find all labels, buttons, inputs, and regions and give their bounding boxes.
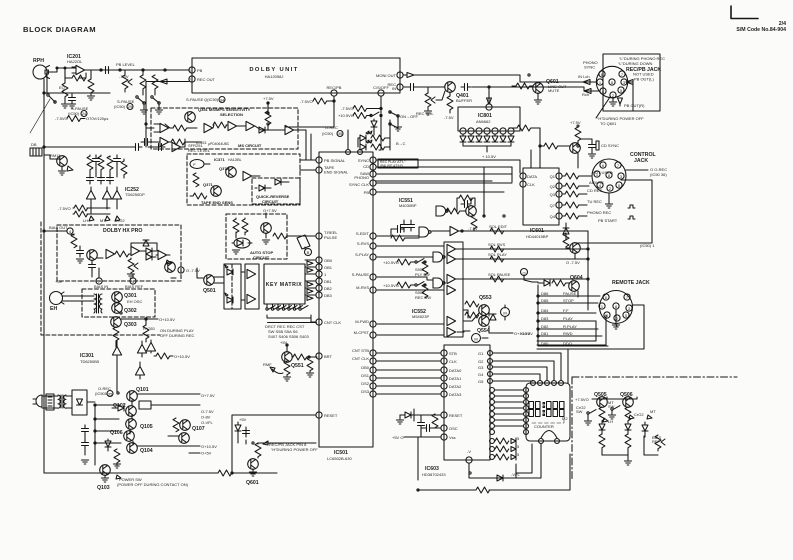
svg-text:REC VOL: REC VOL [416, 111, 434, 116]
MS resistor r1 [173, 125, 187, 131]
qr diode 1 [259, 185, 265, 191]
Q601 emitter ground [537, 93, 539, 99]
svg-text:EQ: EQ [59, 85, 65, 90]
svg-text:TO Q601: TO Q601 [600, 121, 617, 126]
svg-text:O+10.5V: O+10.5V [159, 317, 175, 322]
svg-text:REMOTE JACK: REMOTE JACK [612, 280, 650, 286]
MT arrow [105, 216, 110, 221]
svg-text:+5V: +5V [239, 417, 247, 422]
svg-text:O70V/120µs: O70V/120µs [86, 116, 108, 121]
control jack output resistor R614 [565, 202, 579, 208]
wires IC501 to IC603 data bus [376, 353, 441, 394]
buffer amp 1 [247, 269, 256, 278]
svg-text:TD6250DP: TD6250DP [125, 192, 145, 197]
svg-text:PHONO: PHONO [354, 175, 369, 180]
junction dots input [56, 67, 58, 69]
regulator block [139, 401, 151, 409]
REC VOL pot [425, 93, 435, 107]
svg-text:M: M [503, 311, 506, 316]
D81 rwd line [538, 335, 602, 337]
svg-text:O -7.5V: O -7.5V [186, 268, 200, 273]
MS amp a4 [246, 121, 255, 130]
svg-text:Q506: Q506 [620, 392, 633, 398]
IC501 pin SAW [370, 171, 376, 177]
svg-text:Q554: Q554 [477, 328, 490, 334]
Q602 base diodes [563, 228, 569, 234]
svg-text:Q(IC50): Q(IC50) [204, 97, 219, 102]
hx pin 7 [96, 278, 102, 284]
SOL PLAY line [456, 258, 588, 260]
svg-text:(IC50): (IC50) [114, 104, 126, 109]
resistor to base of Q603 [575, 127, 581, 141]
hx wires bottom [99, 268, 176, 278]
svg-text:DB2: DB2 [324, 286, 333, 291]
svg-text:STB: STB [449, 351, 457, 356]
IC603 pin 13 OSC [441, 425, 447, 431]
svg-text:-7.5V: -7.5V [444, 115, 454, 120]
dolby pin 18 REC/PB [331, 90, 337, 96]
IC603 pin 6 DATA1 [441, 375, 447, 381]
IC501 pin SYNC 2 [370, 157, 376, 163]
IC603 display driver box [444, 345, 490, 460]
REC/PB jack circle [596, 66, 627, 97]
svg-text:DB: DB [31, 142, 37, 147]
svg-text:D81: D81 [541, 331, 549, 336]
IC252 amp 3 [112, 190, 121, 199]
rec level out wire [181, 139, 185, 147]
wire vertical to bottom rail [417, 437, 419, 480]
and gate s-play [433, 252, 445, 262]
tape end lamp [190, 160, 204, 169]
svg-text:O+10.5V: O+10.5V [201, 444, 217, 449]
RY301 relay [143, 325, 149, 339]
svg-text:O-7.5V: O-7.5V [201, 409, 214, 414]
svg-text:REC LEVEL: REC LEVEL [188, 148, 211, 153]
wire monitor out arrow [407, 73, 414, 78]
wire pb tap [124, 69, 126, 71]
svg-text:+10.5VO: +10.5VO [383, 260, 399, 265]
key matrix switch row [266, 306, 275, 311]
Q603 base resistor [544, 143, 558, 149]
svg-text:IN Lch: IN Lch [578, 74, 590, 79]
CrO2 arrow [115, 216, 120, 221]
Q601 base resistor [516, 83, 530, 89]
IC603 pin 9 STB [441, 350, 447, 356]
IC603 reset caps [418, 419, 425, 429]
svg-text:HA12058J: HA12058J [265, 74, 284, 79]
MS amp out [285, 125, 294, 134]
remote jack pin 2 [614, 315, 620, 321]
IC603 reset network diode [405, 412, 411, 418]
buffer box [245, 264, 259, 309]
IC552 driver 4 [447, 285, 456, 294]
svg-text:IC371: IC371 [214, 157, 225, 162]
svg-text:B: B [307, 250, 310, 255]
autostop resistor 2 [242, 219, 248, 233]
pb level resistor 2 [140, 75, 146, 89]
svg-text:PB LEVEL: PB LEVEL [116, 62, 136, 67]
RESET wire run [232, 415, 316, 473]
IC551 buffer [450, 226, 459, 235]
wire bias out to head line [44, 230, 67, 232]
svg-text:BIAS OUT: BIAS OUT [49, 225, 68, 230]
svg-text:LC6502B-630: LC6502B-630 [327, 456, 352, 461]
svg-text:G4: G4 [478, 372, 484, 377]
wire rec vol tap [428, 87, 445, 100]
hx amp3 [158, 250, 167, 259]
svg-text:Vss: Vss [449, 435, 456, 440]
IC601 pin 7 DATA [520, 173, 526, 179]
IC801 meter driver box [458, 107, 520, 131]
MS resistor r2 [213, 122, 227, 128]
svg-text:CNT STB: CNT STB [352, 348, 369, 353]
rec mute switch S1 [370, 112, 379, 117]
IC501 pin CD 1 [370, 164, 376, 170]
svg-text:R.PLAY: R.PLAY [563, 324, 577, 329]
Q601 line out mute transistor [533, 83, 544, 94]
q505 resistor 2 [599, 434, 605, 448]
svg-text:OB0: OB0 [324, 258, 333, 263]
svg-text:DS1: DS1 [361, 373, 370, 378]
wire q501 base [197, 268, 203, 278]
IC501 pin 13 RESET [316, 412, 322, 418]
ic301 diode 1 [112, 346, 121, 355]
q551 ground [284, 361, 290, 375]
phono sync diagonal wire [596, 97, 610, 118]
ic301 diode 4 [135, 366, 144, 375]
Q302 transistor [112, 303, 123, 314]
counter display box [526, 383, 570, 441]
svg-text:S-PAUSE: S-PAUSE [352, 272, 370, 277]
Q604 diode [544, 280, 550, 286]
svg-text:µPD4064UBC: µPD4064UBC [208, 142, 230, 146]
LED indicator 1 [360, 135, 366, 141]
REC PLAY note box [378, 159, 418, 168]
Q303 emitter resistor [113, 327, 119, 341]
wire sync bus into IC601 [531, 146, 540, 168]
pulse mark pb start [628, 216, 635, 219]
svg-text:Q: Q [522, 271, 525, 276]
wires q501 to keymatrix [214, 272, 259, 300]
Q601 power sense transistor [248, 459, 259, 470]
svg-text:D86: D86 [541, 291, 549, 296]
rec in coupling cap [407, 84, 417, 91]
IC603 G3 pin [488, 365, 493, 370]
svg-text:DATA1: DATA1 [449, 376, 462, 381]
ic551 input resistor [391, 235, 405, 241]
Q506 transistor [623, 397, 634, 408]
KEY MATRIX box [264, 264, 305, 304]
D83 play line [538, 320, 596, 322]
q506 emitter resistor [625, 407, 631, 421]
REC/PB jack pin 4 [600, 88, 606, 94]
svg-text:HD38702433: HD38702433 [422, 472, 446, 477]
wire amp out to dolby pin1 [85, 69, 189, 71]
IC551 input caps [401, 221, 408, 231]
mute diode 1 [371, 121, 377, 127]
control jack pin 2 [607, 185, 613, 191]
IC501 pin 10 DB1 [316, 278, 322, 284]
hx pot [128, 259, 138, 273]
IC552 driver 1 [447, 244, 456, 253]
mt branch diode [642, 425, 648, 431]
seven segment digits row2 [529, 410, 564, 417]
svg-text:RESET: RESET [324, 413, 338, 418]
wire s-edit [377, 235, 419, 237]
svg-text:+ 10.5V: + 10.5V [482, 154, 496, 159]
control jack circle [592, 159, 626, 193]
svg-text:MT: MT [100, 218, 106, 223]
Q103 transistor [100, 465, 111, 476]
svg-text:O-8V: O-8V [201, 415, 211, 420]
node Q [521, 269, 528, 276]
svg-text:MT: MT [650, 409, 656, 414]
MS resistor r3 [265, 111, 271, 125]
svg-text:SYNC: SYNC [584, 65, 595, 70]
corner registration mark [731, 6, 758, 19]
REC/PB jack pin 7 [619, 71, 625, 77]
Q501 record mute transistor [204, 275, 215, 286]
svg-text:-7.5VO: -7.5VO [341, 106, 354, 111]
svg-text:HA12IBL: HA12IBL [228, 158, 242, 162]
pin 2 ground [612, 98, 614, 101]
Q372 transistor [226, 167, 237, 178]
key scan resistors [495, 438, 509, 444]
IC601 pin Q7 [556, 202, 562, 208]
svg-text:G5: G5 [478, 379, 484, 384]
IC603 G5 pin [488, 379, 493, 384]
Q401 emitter resistor [449, 92, 451, 96]
CD SYNC label box [596, 141, 599, 150]
IC603 pin 7 CLK [441, 358, 447, 364]
svg-text:MONI OUT: MONI OUT [376, 73, 397, 78]
svg-text:Q2: Q2 [550, 184, 556, 189]
autostop grounds [232, 250, 239, 254]
power transformer [58, 395, 66, 408]
D80 ddo line [538, 345, 608, 347]
svg-text:Q303: Q303 [124, 322, 137, 328]
switch stems [267, 304, 300, 308]
qr diode 2 [275, 179, 281, 185]
svg-text:(IC50): (IC50) [68, 111, 80, 116]
svg-text:PB OUT(L): PB OUT(L) [634, 77, 654, 82]
svg-text:Q371: Q371 [203, 182, 214, 187]
svg-text:IN: IN [392, 86, 396, 91]
svg-text:JACK: JACK [634, 158, 648, 164]
svg-text:G3: G3 [478, 365, 484, 370]
dolby pin 17 C/S/OFF [378, 90, 384, 96]
svg-text:+7.5VO: +7.5VO [575, 397, 589, 402]
control jack pin 3 [618, 173, 624, 179]
svg-text:Q101: Q101 [136, 387, 149, 393]
psu wires spine [95, 400, 133, 465]
tape end opamp [243, 171, 252, 180]
control jack pin 7 [615, 162, 621, 168]
svg-text:PHONO REC: PHONO REC [587, 210, 611, 215]
IC801 bottom pins 7..1 [460, 128, 466, 134]
wire m-fwd [377, 323, 444, 325]
svg-text:M: M [474, 337, 477, 342]
IC201 feedback resistor [72, 75, 86, 81]
svg-text:CLK: CLK [449, 359, 457, 364]
Q371 transistor [211, 186, 222, 197]
IC603 osc network [423, 425, 433, 432]
svg-text:REC OUT: REC OUT [197, 77, 216, 82]
eq network cap v1 [93, 155, 100, 165]
MS out to rec/pb [286, 101, 334, 127]
svg-text:PB OUT(R): PB OUT(R) [624, 103, 645, 108]
svg-text:-V: -V [467, 449, 471, 454]
svg-text:CD: CD [363, 164, 369, 169]
Q604 transistor [569, 281, 580, 292]
svg-text:O+7.5V: O+7.5V [263, 208, 277, 213]
svg-text:HA22OL: HA22OL [67, 59, 83, 64]
bias out resistor [71, 234, 77, 248]
Q101 transistor [127, 391, 138, 402]
wire pin17 down [380, 96, 382, 150]
wire q601 to reset [258, 443, 316, 444]
D86 pause line [538, 295, 600, 297]
svg-text:RESET: RESET [449, 413, 463, 418]
q506 diode [625, 424, 631, 430]
ic551 bias network [459, 195, 473, 201]
rec mute switch lever pair [390, 112, 398, 128]
hx cap out [89, 261, 96, 271]
svg-text:SOL RVS: SOL RVS [488, 242, 505, 247]
IC603 pin 5 DATA0 [441, 367, 447, 373]
svg-text:SELECTION: SELECTION [220, 112, 243, 117]
IC501 pin 22 S-RVS [370, 243, 376, 249]
bottom rail diode [497, 475, 503, 481]
svg-text:RWD: RWD [563, 331, 573, 336]
q505 top rail [597, 397, 637, 399]
control jack pin 5 [616, 182, 622, 188]
svg-text:O -7.5V: O -7.5V [566, 260, 580, 265]
remote jack return wires [537, 305, 644, 349]
control jack pin 6 [600, 162, 606, 168]
svg-text:Q7: Q7 [550, 203, 556, 208]
IC501 pin PB [370, 189, 376, 195]
svg-text:O+10.5V: O+10.5V [174, 354, 190, 359]
pb level resistor 3 [152, 75, 158, 89]
IC501 pin 30 DB0 [370, 367, 376, 373]
IC501 top pin 43 [346, 150, 351, 155]
svg-text:REF: REF [652, 439, 661, 444]
auto stop dashed box [226, 214, 287, 259]
jack right wire [627, 82, 633, 111]
RPH head symbol [33, 65, 47, 79]
q601b collector resistor [255, 443, 261, 457]
wire control jack ground stub [608, 193, 610, 203]
DB box [30, 148, 42, 156]
IC552 box [444, 242, 463, 337]
svg-text:KEY MATRIX: KEY MATRIX [266, 282, 303, 288]
remote jack pin 7 [624, 294, 630, 300]
IC501 pin 4 PB SIGNAL [316, 157, 322, 163]
svg-text:DOLBY UNIT: DOLBY UNIT [249, 67, 298, 73]
tape sw bottom wires [602, 436, 658, 460]
svg-text:M54523P: M54523P [412, 314, 429, 319]
svg-text:M2: M2 [562, 416, 568, 421]
quick reverse dashed box [252, 178, 300, 204]
IC501 pin 7 OB0 [316, 257, 322, 263]
psu res r1 [114, 449, 120, 463]
q553 wires [457, 310, 489, 332]
wire from jack down to transistor Q602 [575, 180, 652, 243]
line filter block [46, 394, 54, 410]
svg-text:M-FWD: M-FWD [355, 319, 369, 324]
svg-text:+7.5V: +7.5V [263, 96, 274, 101]
svg-text:(IC50): (IC50) [322, 131, 334, 136]
IC552 driver 5 [447, 316, 456, 325]
svg-text:LH: LH [83, 218, 88, 223]
hx pin 4b [130, 278, 136, 284]
svg-text:BUFFER: BUFFER [456, 98, 472, 103]
svg-text:(IC50) 1: (IC50) 1 [640, 243, 655, 248]
svg-text:CIRCUIT: CIRCUIT [253, 255, 270, 260]
svg-text:AN6662: AN6662 [476, 119, 491, 124]
svg-text:DOLBY HX PRO: DOLBY HX PRO [103, 228, 142, 234]
bias section dashed boundary [41, 222, 160, 335]
svg-text:G2: G2 [478, 359, 484, 364]
dolby pin 8 MONI OUT [397, 72, 403, 78]
svg-text:END SIGNAL: END SIGNAL [324, 170, 349, 175]
control jack output resistor R611 [565, 173, 579, 179]
Q505 transistor [597, 397, 608, 408]
REC/PB jack pin 2 [610, 92, 616, 98]
control jack output resistor R612 [565, 183, 579, 189]
svg-text:+10.5VO: +10.5VO [338, 113, 354, 118]
wire eh to coil [62, 296, 94, 301]
wire L ch to jack [414, 75, 597, 82]
D85 stop line [538, 302, 598, 304]
pb ground stubs [144, 105, 159, 109]
counter top pins [531, 381, 536, 386]
svg-text:“L”DURING DOWN: “L”DURING DOWN [618, 61, 653, 66]
svg-text:S-PAUSE: S-PAUSE [186, 97, 204, 102]
svg-text:SW: SW [608, 404, 615, 409]
svg-text:(IC501: (IC501 [95, 391, 108, 396]
LH arrow [89, 216, 94, 221]
CrO2 diode [629, 415, 634, 419]
svg-text:35: 35 [108, 392, 113, 397]
svg-text:Q103: Q103 [97, 485, 110, 491]
IC603 key pins [490, 439, 495, 444]
svg-text:ON→OFF: ON→OFF [400, 114, 419, 119]
dolby unit box U-DOLBY [192, 58, 400, 93]
svg-text:SOL PLAY: SOL PLAY [488, 252, 507, 257]
MS row2 cap [141, 139, 151, 146]
buffer amp 2 [247, 294, 256, 303]
REC/PB jack outer box [603, 54, 660, 111]
q553 diode [490, 314, 496, 320]
IC501 pin 28 CNT STB [370, 350, 376, 356]
RM11 transistor [57, 156, 68, 167]
IC603 segment pins column [490, 388, 495, 393]
switch common bus [267, 315, 317, 323]
SOL EDIT line [459, 230, 588, 232]
mute ground [397, 118, 399, 126]
IC501 pin 35 BRT [316, 353, 322, 359]
IC501 pin 21 S-EDIT [370, 233, 376, 239]
svg-text:PB: PB [197, 68, 203, 73]
MS amp a1 [160, 123, 169, 132]
IC501 pin 27 M-CPST [370, 332, 376, 338]
rec/pb jack pin8 note [263, 441, 268, 445]
svg-text:M4030BP: M4030BP [399, 203, 417, 208]
wire sync clk long [376, 183, 512, 192]
IC501 pin 26 M-FWD [370, 321, 376, 327]
